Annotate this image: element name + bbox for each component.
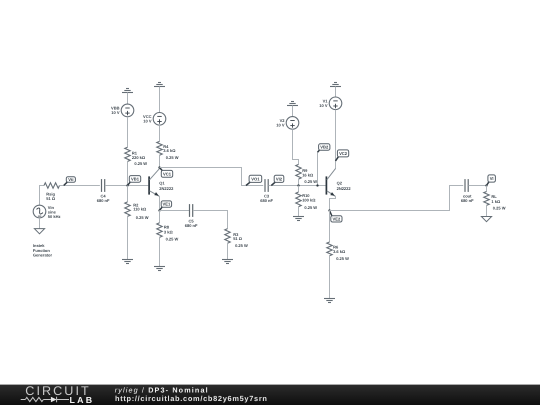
svg-text:10 V: 10 V bbox=[319, 103, 328, 108]
resistor R2 110 kOhm bbox=[125, 202, 149, 220]
node flag Vti bbox=[64, 177, 76, 186]
resistor R10 100 kOhm bbox=[296, 192, 317, 210]
capacitor cout 680 nF bbox=[461, 179, 474, 203]
svg-text:10 V: 10 V bbox=[276, 123, 285, 128]
svg-text:0.25 W: 0.25 W bbox=[235, 243, 248, 248]
svg-text:16 kΩ: 16 kΩ bbox=[302, 172, 314, 177]
svg-text:VE2: VE2 bbox=[333, 216, 341, 221]
svg-text:0.25 W: 0.25 W bbox=[166, 155, 179, 160]
wire VB2 stub bbox=[317, 152, 319, 185]
wire V1 to Q2 collector bbox=[335, 110, 337, 169]
node flag VE1 bbox=[160, 201, 172, 211]
svg-text:50 kHz: 50 kHz bbox=[48, 214, 61, 219]
wire R3 to ground bbox=[227, 243, 229, 259]
svg-text:0.25 W: 0.25 W bbox=[136, 215, 149, 220]
source VCC 10 V bbox=[143, 113, 166, 126]
svg-text:680 nF: 680 nF bbox=[260, 198, 273, 203]
svg-text:VB2: VB2 bbox=[320, 145, 329, 150]
svg-text:Vl: Vl bbox=[490, 176, 494, 181]
resistor R1 220 kOhm bbox=[125, 147, 147, 166]
wire ground to V1 bbox=[335, 87, 337, 98]
transistor Q1 2N2222 bbox=[149, 169, 174, 197]
logo schematic line with resistor and diode bbox=[21, 397, 69, 403]
junction stage-2 divider node bbox=[297, 184, 299, 186]
node flag VE2 bbox=[330, 211, 343, 223]
wire Q1 collector run to C3 bbox=[160, 168, 264, 186]
svg-text:0.25 W: 0.25 W bbox=[336, 256, 349, 261]
svg-text:Q2: Q2 bbox=[337, 180, 343, 185]
svg-text:10 V: 10 V bbox=[143, 118, 152, 123]
wire R8 to ground bbox=[159, 237, 161, 266]
transistor Q2 2N2222 bbox=[326, 169, 351, 197]
ground below R6 bbox=[324, 299, 335, 303]
node flag VB2 bbox=[318, 144, 330, 152]
wire R1 to base node bbox=[127, 162, 129, 186]
capacitor C3 680 nF bbox=[260, 179, 273, 203]
wire Vin to ground bbox=[39, 218, 41, 229]
node flag VC1 bbox=[160, 168, 173, 178]
svg-text:VB1: VB1 bbox=[131, 177, 140, 182]
node flag VB1 bbox=[128, 176, 141, 186]
svg-text:0.25 W: 0.25 W bbox=[304, 205, 317, 210]
wire emitter node to R6 bbox=[329, 211, 331, 243]
svg-text:0.25 W: 0.25 W bbox=[493, 205, 506, 210]
node flag VC2 bbox=[336, 150, 349, 161]
ground triangle below RL bbox=[481, 217, 491, 222]
wire Q1 emitter down bbox=[159, 196, 161, 210]
svg-text:680 nF: 680 nF bbox=[461, 198, 474, 203]
svg-text:100 kΩ: 100 kΩ bbox=[302, 197, 316, 202]
svg-text:3 kΩ: 3 kΩ bbox=[164, 230, 174, 235]
wire Vin to input node bbox=[40, 186, 45, 206]
source V1 10 V bbox=[319, 97, 342, 110]
ground below R3 bbox=[222, 260, 233, 264]
ground above V1 bbox=[330, 83, 341, 87]
ground above VCC bbox=[154, 83, 165, 87]
annotation Instek Function Generator bbox=[33, 243, 53, 258]
svg-text:VI2: VI2 bbox=[276, 176, 283, 181]
wire emitter node to R8 bbox=[159, 211, 161, 223]
svg-text:0.25 W: 0.25 W bbox=[166, 236, 179, 241]
ground above V2 bbox=[287, 102, 298, 106]
footer bar bbox=[0, 385, 540, 405]
svg-text:Q1: Q1 bbox=[159, 180, 165, 185]
svg-text:220 kΩ: 220 kΩ bbox=[132, 155, 146, 160]
resistor R3 51 Ohm bbox=[225, 229, 248, 249]
resistor R8 3 kOhm bbox=[157, 223, 179, 242]
svg-text:1 kΩ: 1 kΩ bbox=[491, 199, 501, 204]
svg-text:10 V: 10 V bbox=[111, 110, 120, 115]
capacitor C4 680 nF bbox=[97, 179, 110, 203]
source V2 10 V bbox=[276, 117, 299, 130]
svg-text:110 kΩ: 110 kΩ bbox=[133, 207, 147, 212]
source VBB 10 V bbox=[111, 104, 134, 117]
wire V2 to R9 bbox=[293, 129, 299, 164]
svg-text:http://circuitlab.com/cb82y6m5: http://circuitlab.com/cb82y6m5y7srn bbox=[115, 394, 268, 403]
wire C5 to R3 bbox=[193, 211, 228, 229]
svg-text:680 nF: 680 nF bbox=[185, 223, 198, 228]
resistor R9 16 kOhm bbox=[296, 164, 317, 184]
svg-text:VO1: VO1 bbox=[251, 176, 260, 181]
junction Q1 emitter node bbox=[158, 209, 160, 211]
resistor RL 1 kOhm bbox=[484, 192, 506, 211]
wire R4 to collector node bbox=[159, 155, 161, 167]
svg-text:680 nF: 680 nF bbox=[97, 198, 110, 203]
svg-text:0.25 W: 0.25 W bbox=[304, 179, 317, 184]
svg-text:VE1: VE1 bbox=[163, 202, 171, 207]
wire output node to RL bbox=[486, 186, 488, 192]
ground triangle below Vin bbox=[34, 229, 44, 234]
ground below R2 bbox=[122, 260, 133, 264]
wire VCC to R4 bbox=[159, 125, 161, 141]
source Vin sine function generator bbox=[33, 205, 60, 219]
svg-text:Generator: Generator bbox=[33, 253, 53, 258]
wire C4 to Q1 base bbox=[105, 185, 148, 187]
svg-text:3.6 kΩ: 3.6 kΩ bbox=[163, 148, 176, 153]
ground below R10 bbox=[293, 217, 304, 221]
wire base node to R10 bbox=[298, 186, 300, 193]
wire C3 to Q2 base bbox=[268, 185, 325, 187]
resistor R4 3.6 kOhm bbox=[157, 141, 179, 160]
wire VBB to R1 bbox=[127, 117, 129, 148]
wire R9 to stage-2 base node bbox=[298, 179, 300, 185]
svg-text:VC2: VC2 bbox=[339, 151, 348, 156]
wire RL to ground bbox=[486, 205, 488, 216]
junction VB2 stub on base wire bbox=[316, 184, 318, 186]
wire base node to R2 bbox=[127, 186, 129, 202]
node flag Vl bbox=[487, 175, 496, 186]
svg-text:0.25 W: 0.25 W bbox=[134, 161, 147, 166]
node flag VI2 bbox=[271, 175, 284, 185]
svg-text:Vti: Vti bbox=[68, 177, 73, 182]
junction Q1 collector node bbox=[158, 166, 160, 168]
svg-text:LAB: LAB bbox=[70, 395, 93, 405]
node flag VO1 bbox=[246, 175, 262, 185]
wire cout to output node bbox=[468, 185, 486, 187]
wire ground to V2 bbox=[292, 106, 294, 117]
resistor Rsig 51 Ohm bbox=[44, 183, 60, 201]
svg-text:3.6 kΩ: 3.6 kΩ bbox=[333, 249, 346, 254]
svg-text:2N2222: 2N2222 bbox=[337, 186, 352, 191]
wire R10 to ground bbox=[298, 207, 300, 217]
svg-text:51 Ω: 51 Ω bbox=[46, 196, 56, 201]
wire R6 to ground bbox=[329, 256, 331, 299]
svg-text:2N2222: 2N2222 bbox=[159, 186, 174, 191]
ground above VBB bbox=[122, 89, 133, 93]
wire R2 to ground bbox=[127, 216, 129, 259]
ground below R8 bbox=[154, 267, 165, 271]
wire emitter node to cout bbox=[330, 186, 464, 211]
capacitor C5 680 nF bbox=[185, 204, 198, 228]
wire ground to VCC bbox=[159, 87, 161, 113]
svg-text:51 Ω: 51 Ω bbox=[233, 236, 243, 241]
junction stage-1 base node bbox=[126, 184, 128, 186]
wire Q2 emitter jog down bbox=[330, 196, 336, 210]
svg-text:VC1: VC1 bbox=[163, 171, 172, 176]
junction output node bbox=[485, 184, 487, 186]
resistor R6 3.6 kOhm bbox=[327, 242, 349, 261]
wire emitter node to C5 bbox=[160, 210, 190, 212]
wire Rsig to C4 bbox=[60, 185, 100, 187]
wire ground to VBB bbox=[127, 93, 129, 105]
junction Q2 emitter node bbox=[328, 209, 330, 211]
svg-text:rylieg / DP3- Nominal: rylieg / DP3- Nominal bbox=[115, 386, 209, 395]
